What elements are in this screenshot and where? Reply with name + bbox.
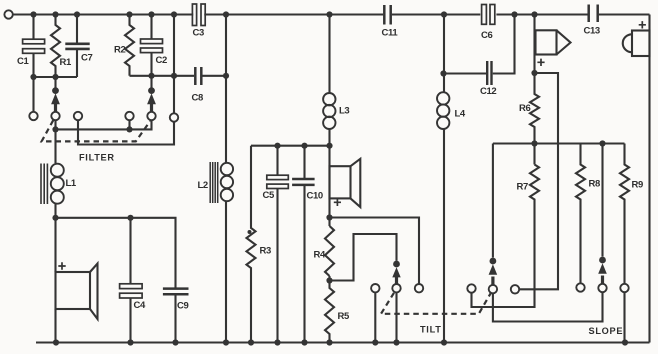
wire pole1 feed (54, 77, 56, 89)
svg-text:R1: R1 (60, 57, 72, 68)
svg-text:C6: C6 (481, 30, 492, 41)
switch SLOPE poleB wiper contact (598, 284, 606, 292)
switch SLOPE poleA contact 3 (511, 285, 519, 293)
speaker horn tweeter (536, 30, 557, 54)
junction R3 bottom (248, 339, 254, 345)
junction L3 bottom (326, 143, 332, 149)
junction R1 bottom (52, 74, 58, 80)
switch FILTER pole2 arrow (150, 103, 153, 112)
svg-text:C11: C11 (382, 28, 399, 39)
wire woofer column (54, 218, 56, 343)
svg-text:C9: C9 (177, 301, 188, 312)
svg-text:C7: C7 (81, 53, 92, 64)
junction L3 top (326, 11, 332, 17)
switch FILTER pole1 contact 3 (74, 112, 82, 120)
junction TILT contact bottom (372, 339, 378, 345)
junction C7 top (74, 11, 80, 17)
wire SLOPE wiper link (493, 292, 603, 321)
junction R6 bus tap (531, 11, 537, 17)
svg-text:L4: L4 (455, 109, 466, 120)
wire R6/R7 node bus (493, 142, 625, 144)
wire top bus (13, 13, 650, 15)
switch SLOPE poleB contact 1 (576, 283, 584, 291)
wire to SLOPE poleA (492, 144, 494, 258)
svg-text:C10: C10 (307, 191, 323, 202)
speaker midrange (330, 166, 351, 198)
switch SLOPE poleA contact 1 (467, 284, 475, 292)
switch FILTER pole2 contact 1 (125, 112, 133, 120)
wire L4 to C12 (444, 72, 486, 74)
inductor L1 core (41, 164, 47, 205)
resistor R1 (51, 15, 60, 78)
capacitor C1 (32, 15, 34, 112)
junction L4 top (441, 11, 447, 17)
junction SLOPE poleB feed (599, 140, 605, 146)
wire group2 bottom (130, 75, 195, 77)
svg-text:TILT: TILT (420, 325, 442, 335)
capacitor C3 (192, 4, 196, 26)
junction R5 bottom (326, 339, 332, 345)
resistor R6 (530, 15, 539, 165)
switch TILT contact 1 (371, 284, 379, 292)
wire L1 bottom node (56, 218, 176, 288)
junction L1 bottom (52, 215, 58, 221)
capacitor C5 (276, 146, 278, 343)
junction C5 bottom (274, 339, 280, 345)
junction woofer bottom (53, 339, 59, 345)
polarity + midrange (334, 199, 341, 206)
wire TILT stubs to bus (375, 292, 396, 342)
switch SLOPE poleB arrow (601, 276, 604, 284)
input terminal (4, 10, 12, 18)
switch FILTER pole2 wiper contact (147, 112, 155, 120)
junction C8 right (223, 73, 229, 79)
node SLOPE poleB selected contact (599, 257, 606, 264)
node FILTER pole2 selected contact (148, 87, 155, 94)
svg-text:C4: C4 (134, 300, 146, 311)
wire bottom bus (36, 341, 650, 343)
wire R4 top to TILT contact (330, 218, 420, 285)
junction R1 top (52, 11, 58, 17)
switch TILT wiper contact (392, 284, 400, 292)
switch FILTER pole1 arrow (54, 103, 57, 112)
wire L4 top lead (443, 15, 445, 93)
node FILTER pole1 selected contact (52, 87, 59, 94)
svg-text:R4: R4 (314, 250, 326, 261)
junction R4-R5 (326, 277, 332, 283)
junction pole1 wiper node (52, 126, 58, 132)
junction R9 bottom (622, 339, 628, 345)
junction pole2 contact stub (126, 126, 132, 132)
switch SLOPE poleA arrow (491, 277, 494, 285)
resistor R8 (576, 144, 585, 284)
wire pole1 wiper to pole2 (56, 120, 152, 129)
mechanical link FILTER (dashed) (42, 120, 150, 141)
resistor R3 (247, 146, 256, 343)
junction C2 top (148, 11, 154, 17)
speaker woofer (56, 272, 91, 309)
svg-text:R7: R7 (517, 182, 528, 193)
wire C8 right (203, 75, 227, 77)
svg-text:SLOPE: SLOPE (589, 326, 624, 336)
junction R6-R7 (531, 140, 537, 146)
junction C12 bus tap (511, 11, 517, 17)
junction R2 top (126, 11, 132, 17)
wire L1 top lead (54, 129, 56, 163)
svg-text:L1: L1 (66, 178, 77, 189)
polarity + dome (639, 21, 646, 28)
junction L4 bottom (441, 339, 447, 345)
switch FILTER pole1 wiper contact (51, 112, 59, 120)
wire contact3 link (78, 120, 174, 144)
node SLOPE poleA selected contact (490, 258, 497, 265)
wire group1 bottom (34, 76, 78, 78)
junction C2 bottom (148, 73, 154, 79)
wire x174 from top bus (173, 15, 175, 114)
switch TILT contact 3 (415, 284, 423, 292)
mechanical link TILT-SLOPE (dashed) (381, 293, 491, 314)
svg-text:R6: R6 (519, 103, 530, 114)
wire mid node (251, 145, 330, 147)
svg-text:L3: L3 (339, 106, 349, 117)
resistor R4 (325, 226, 334, 276)
junction C10 top (301, 143, 307, 149)
junction C9 bottom (172, 339, 178, 345)
junction x174 crossing (171, 73, 177, 79)
inductor L3 (323, 93, 335, 105)
resistor R5 (325, 276, 334, 343)
polarity + woofer (58, 262, 65, 269)
junction L2 bottom (223, 339, 229, 345)
svg-text:C1: C1 (17, 56, 29, 67)
svg-text:C5: C5 (263, 190, 275, 201)
capacitor C6 (482, 5, 487, 25)
switch FILTER pole2 contact 3 (170, 113, 178, 121)
capacitor C12 (487, 61, 491, 85)
junction C4 top (127, 215, 133, 221)
switch SLOPE poleA wiper contact (489, 285, 497, 293)
junction TILT wiper bottom (393, 339, 399, 345)
junction L4-C12 (440, 70, 446, 76)
svg-text:C2: C2 (156, 55, 167, 66)
inductor L2 core (210, 162, 218, 203)
wire R4/R5 junction to TILT wiper (330, 234, 397, 281)
node R3 top bend blob (248, 230, 252, 234)
wire node A vertical C3-C8-L2 (225, 15, 227, 164)
resistor R7 (472, 165, 540, 308)
speaker dome tweeter (632, 31, 650, 57)
node TILT selected contact (393, 261, 400, 268)
junction bus tap x174 (171, 11, 177, 17)
switch TILT arrow (395, 276, 398, 284)
junction C3 right (223, 11, 229, 17)
svg-text:C12: C12 (480, 86, 496, 97)
junction C5 top (274, 143, 280, 149)
capacitor C10 (292, 179, 315, 185)
resistor R9 (620, 144, 629, 343)
capacitor C9 (163, 289, 189, 295)
svg-text:C13: C13 (584, 26, 600, 37)
svg-text:C8: C8 (192, 93, 203, 104)
capacitor C2 (150, 15, 152, 90)
inductor L4 (437, 92, 449, 104)
inductor L2 (221, 163, 233, 175)
svg-text:R3: R3 (260, 246, 271, 257)
svg-text:C3: C3 (193, 28, 204, 39)
svg-text:R8: R8 (589, 179, 600, 190)
junction C10 bottom (301, 339, 307, 345)
capacitor C11 (384, 5, 390, 25)
capacitor C7 (76, 15, 78, 78)
junction C4 bottom (127, 339, 133, 345)
inductor L1 (51, 164, 64, 177)
wire to SLOPE poleB (601, 144, 603, 257)
svg-text:L2: L2 (198, 180, 208, 191)
svg-text:R2: R2 (114, 45, 125, 56)
resistor R2 (125, 15, 134, 76)
junction C1 bottom (30, 74, 36, 80)
capacitor C8 (195, 67, 201, 85)
junction horn return (531, 70, 537, 76)
svg-text:R9: R9 (632, 180, 643, 191)
capacitor C4 (129, 218, 131, 343)
svg-text:FILTER: FILTER (79, 153, 115, 163)
wire C12 to top bus (493, 15, 515, 74)
capacitor C13 (589, 5, 598, 23)
junction R4 top (326, 214, 332, 220)
switch SLOPE poleB contact 3 (620, 284, 628, 292)
switch FILTER pole1 contact 1 (29, 112, 37, 120)
junction C1 top (30, 11, 36, 17)
wire right edge (648, 15, 650, 343)
wire horn return (519, 73, 558, 289)
wire L3 top lead (328, 15, 330, 94)
svg-text:R5: R5 (338, 311, 350, 322)
polarity + horn (537, 59, 544, 66)
